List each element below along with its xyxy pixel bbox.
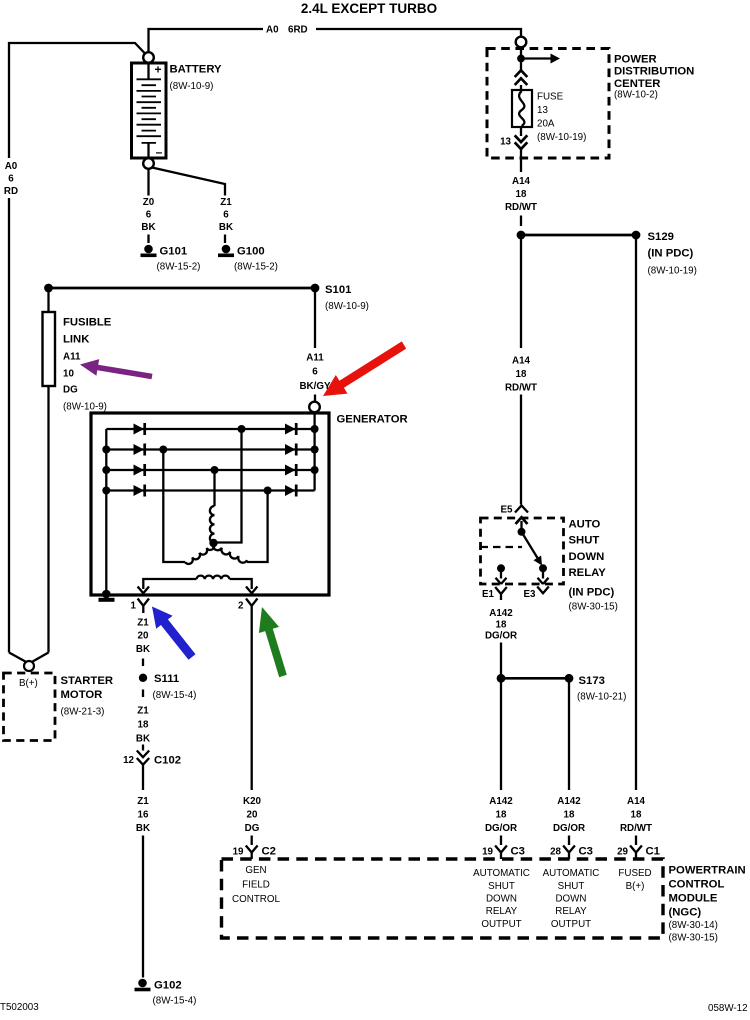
battery BATTERY box [132, 63, 167, 158]
auto shut down relay box dashed [481, 518, 564, 584]
svg-text:OUTPUT: OUTPUT [481, 919, 521, 930]
svg-text:18: 18 [496, 620, 507, 631]
svg-text:RD/WT: RD/WT [620, 823, 652, 834]
svg-text:A11: A11 [306, 353, 324, 364]
svg-text:12: 12 [123, 755, 134, 766]
wire dash above G100 [224, 235, 226, 244]
wire S101 to fusible link [47, 288, 49, 312]
ground G101 [144, 245, 153, 254]
wire above C2 [251, 836, 253, 846]
svg-text:A0: A0 [266, 25, 279, 36]
generator rectifier row 1 wire [106, 428, 314, 430]
splice S173 bus wire [501, 677, 569, 680]
svg-text:G102: G102 [154, 980, 182, 992]
svg-text:19: 19 [482, 847, 493, 858]
svg-text:BK: BK [141, 222, 155, 233]
generator right bus wire [313, 413, 315, 491]
svg-text:POWER: POWER [614, 54, 657, 66]
annotation green arrow [259, 607, 287, 677]
wire Z1 from battery [152, 168, 225, 196]
svg-text:A142: A142 [557, 796, 581, 807]
svg-text:6: 6 [312, 367, 318, 378]
stator winding coil left phase [185, 543, 214, 564]
wire above C3 pin19 [500, 836, 502, 846]
node dots on left bus [102, 446, 110, 454]
svg-text:A142: A142 [489, 796, 513, 807]
svg-text:(NGC): (NGC) [669, 907, 702, 919]
relay switch arm [522, 532, 538, 558]
svg-text:MODULE: MODULE [669, 893, 718, 905]
svg-text:S173: S173 [579, 675, 605, 687]
connector C1 pin 29 [630, 846, 642, 860]
svg-text:C102: C102 [154, 755, 181, 767]
annotation red arrow [323, 341, 406, 396]
svg-text:POWERTRAIN: POWERTRAIN [669, 865, 746, 877]
svg-text:(IN PDC): (IN PDC) [569, 587, 615, 599]
svg-text:B(+): B(+) [626, 881, 645, 892]
svg-text:DOWN: DOWN [486, 894, 517, 905]
wire above C3 pin28 [568, 836, 570, 846]
node S101 [311, 284, 320, 293]
svg-text:DOWN: DOWN [569, 551, 605, 563]
svg-text:AUTOMATIC: AUTOMATIC [543, 868, 600, 879]
svg-text:6: 6 [223, 210, 229, 221]
svg-text:2.4L EXCEPT TURBO: 2.4L EXCEPT TURBO [301, 1, 437, 16]
svg-text:6: 6 [8, 174, 14, 185]
generator case ground node [102, 590, 111, 599]
diode D5 right row1 [285, 424, 296, 435]
relay internal dashed divider [481, 546, 523, 548]
field brush arrow pin1 [138, 587, 149, 594]
generator left bus wire [105, 429, 107, 594]
svg-text:DG: DG [245, 823, 260, 834]
svg-text:BK/GY: BK/GY [299, 381, 330, 392]
fuse entry chevrons up [515, 70, 528, 85]
starter motor box dashed [4, 673, 56, 741]
svg-text:RELAY: RELAY [569, 567, 607, 579]
svg-text:RELAY: RELAY [486, 906, 518, 917]
svg-text:FIELD: FIELD [242, 880, 270, 891]
stator winding coil top phase [210, 506, 215, 543]
svg-text:18: 18 [631, 810, 642, 821]
svg-text:058W-12: 058W-12 [708, 1003, 748, 1014]
svg-text:STARTER: STARTER [61, 675, 114, 687]
svg-text:(8W-10-9): (8W-10-9) [325, 301, 369, 312]
svg-text:FUSIBLE: FUSIBLE [63, 317, 112, 329]
svg-text:29: 29 [617, 847, 628, 858]
svg-text:(8W-10-19): (8W-10-19) [537, 132, 586, 143]
svg-text:DG: DG [63, 385, 78, 396]
node S129 dot left [517, 231, 526, 240]
relay common node dot [518, 528, 526, 536]
wire dash above G101 [147, 235, 149, 244]
svg-text:FUSE: FUSE [537, 92, 564, 103]
ground G100 [222, 245, 231, 254]
wire fusible link to starter motor [47, 386, 49, 653]
relay E3 arrow down [538, 570, 549, 584]
ground G102 [138, 979, 147, 988]
svg-text:16: 16 [138, 810, 149, 821]
relay E1 arrow down [496, 570, 507, 584]
power distribution center box dashed [487, 49, 609, 159]
wire Z0 from battery [147, 169, 149, 196]
annotation blue arrow [152, 607, 196, 660]
svg-text:LINK: LINK [63, 334, 90, 346]
stator tap wire row3 to top phase [213, 470, 215, 506]
stator neutral node dot [209, 539, 217, 547]
svg-text:G100: G100 [237, 246, 265, 258]
battery internal plates [147, 65, 149, 159]
wire S129 down to E5 [520, 235, 522, 505]
svg-text:C2: C2 [262, 846, 276, 858]
diode D4 left row4 [134, 485, 145, 496]
svg-text:(8W-21-3): (8W-21-3) [61, 707, 105, 718]
svg-text:G101: G101 [160, 246, 188, 258]
svg-text:S111: S111 [154, 673, 179, 685]
svg-text:SHUT: SHUT [488, 881, 515, 892]
svg-text:(8W-10-19): (8W-10-19) [648, 266, 697, 277]
connector C102 chevrons [137, 751, 149, 765]
wire to box edge [520, 149, 522, 172]
fuse exit chevrons down [515, 135, 528, 149]
svg-text:CONTROL: CONTROL [669, 879, 725, 891]
svg-text:(8W-30-15): (8W-30-15) [669, 933, 718, 944]
fusible link body [43, 312, 56, 386]
diode D8 right row4 [285, 485, 296, 496]
svg-text:Z1: Z1 [220, 197, 232, 208]
svg-text:GENERATOR: GENERATOR [337, 414, 408, 426]
svg-text:RD/WT: RD/WT [505, 202, 537, 213]
diode D1 left row1 [134, 424, 145, 435]
svg-text:18: 18 [516, 189, 527, 200]
svg-text:2: 2 [238, 601, 244, 612]
powertrain control module box dashed [222, 859, 664, 938]
diode D3 left row3 [134, 465, 145, 476]
svg-text:RELAY: RELAY [555, 906, 587, 917]
fuse 13 body [512, 90, 532, 127]
svg-text:BK: BK [136, 644, 150, 655]
ground bar below generator [99, 598, 115, 602]
field brush arrow pin2 [246, 587, 257, 594]
svg-text:FUSED: FUSED [618, 868, 651, 879]
svg-text:Z0: Z0 [143, 197, 155, 208]
svg-text:BK: BK [136, 734, 150, 745]
wire circle to bus node [520, 48, 522, 71]
svg-text:DOWN: DOWN [555, 894, 586, 905]
svg-text:DG/OR: DG/OR [485, 823, 517, 834]
stator tap wire row1 to neutral [217, 429, 242, 543]
wire A0 branch to left side [9, 43, 145, 653]
svg-text:18: 18 [516, 369, 527, 380]
generator rectifier row 2 wire [106, 448, 314, 450]
node S173 [565, 674, 574, 683]
svg-text:C3: C3 [511, 846, 525, 858]
svg-text:20A: 20A [537, 119, 555, 130]
svg-text:Z1: Z1 [137, 706, 149, 717]
pin 2 connector Y [246, 599, 257, 614]
svg-text:MOTOR: MOTOR [61, 689, 103, 701]
node dots on right bus [311, 425, 319, 433]
svg-text:(8W-15-2): (8W-15-2) [157, 262, 201, 273]
connector C3 pin 28 [563, 846, 575, 860]
wire E1 to S173 [500, 643, 502, 679]
node dot in PDC [517, 55, 525, 63]
relay E5 arrow into common [516, 517, 528, 524]
svg-text:19: 19 [233, 847, 244, 858]
PDC feed terminal circle [516, 37, 527, 48]
svg-text:6RD: 6RD [288, 25, 308, 36]
wire below C102 [142, 765, 144, 790]
svg-text:18: 18 [564, 810, 575, 821]
stator tap wire row4 to right phase [247, 491, 268, 563]
svg-text:18: 18 [138, 720, 149, 731]
svg-text:BK: BK [219, 222, 233, 233]
pin E5 entry chevron [515, 506, 528, 513]
svg-text:A14: A14 [512, 356, 531, 367]
svg-text:(8W-10-21): (8W-10-21) [577, 692, 626, 703]
svg-text:OUTPUT: OUTPUT [551, 919, 591, 930]
svg-text:E5: E5 [501, 505, 514, 516]
annotation purple arrow [80, 359, 153, 379]
node S101 dot left [44, 284, 53, 293]
starter terminal circle [24, 661, 34, 671]
node S111 [139, 674, 147, 682]
svg-text:GEN: GEN [245, 865, 266, 876]
svg-text:T502003: T502003 [0, 1002, 39, 1013]
svg-text:10: 10 [63, 369, 74, 380]
node S173 dot left [497, 674, 506, 683]
wire converge to starter motor [9, 653, 49, 662]
svg-text:SHUT: SHUT [558, 881, 585, 892]
connector C2 pin 19 [246, 846, 258, 860]
svg-text:(8W-15-2): (8W-15-2) [234, 262, 278, 273]
wire S129 right down to C1 pin29 [635, 235, 637, 790]
svg-text:13: 13 [500, 137, 511, 148]
svg-text:C1: C1 [646, 846, 660, 858]
wire dash above S111 [142, 659, 144, 667]
svg-text:S101: S101 [325, 284, 351, 296]
svg-text:13: 13 [537, 105, 548, 116]
svg-text:CONTROL: CONTROL [232, 894, 280, 905]
connector C3 pin 19 [495, 846, 507, 860]
wire S101 to generator A11 [314, 288, 316, 402]
generator box [91, 413, 329, 595]
svg-text:20: 20 [247, 810, 258, 821]
svg-text:(8W-10-9): (8W-10-9) [63, 402, 107, 413]
svg-text:RD: RD [4, 186, 18, 197]
svg-text:(IN PDC): (IN PDC) [648, 248, 694, 260]
diode D6 right row2 [285, 444, 296, 455]
wire above C102 [142, 745, 144, 751]
svg-text:–: – [156, 145, 163, 159]
battery bottom terminal circle [143, 158, 154, 169]
svg-text:BK: BK [136, 823, 150, 834]
svg-text:SHUT: SHUT [569, 535, 600, 547]
diode D2 left row2 [134, 444, 145, 455]
svg-text:AUTOMATIC: AUTOMATIC [473, 868, 530, 879]
generator rectifier row 4 wire [106, 489, 314, 491]
svg-text:6: 6 [146, 210, 152, 221]
pin 1 connector Y [138, 599, 149, 614]
svg-text:DG/OR: DG/OR [553, 823, 585, 834]
svg-text:DG/OR: DG/OR [485, 631, 517, 642]
wire above C1 pin29 [635, 836, 637, 846]
stator winding coil right phase [213, 544, 247, 563]
relay E1 node dot [497, 564, 505, 572]
node S129 [632, 231, 641, 240]
svg-text:A14: A14 [627, 796, 646, 807]
wire fuse to exit [520, 127, 522, 136]
svg-text:1: 1 [131, 601, 137, 612]
svg-text:28: 28 [550, 847, 561, 858]
splice S129 bus wire [521, 234, 636, 237]
wire S173 left down to C3 pin19 [500, 678, 502, 790]
field winding wire and coil [143, 579, 196, 589]
wire to fuse [520, 85, 522, 90]
wire A0 top: label to PDC [316, 29, 521, 37]
svg-text:C3: C3 [579, 846, 593, 858]
svg-text:Z1: Z1 [137, 796, 149, 807]
svg-text:DISTRIBUTION: DISTRIBUTION [614, 66, 694, 78]
svg-text:AUTO: AUTO [569, 519, 601, 531]
generator rectifier row 3 wire [106, 469, 314, 471]
fuse element wave [519, 91, 524, 126]
bus arrow to right [521, 57, 551, 59]
wire C102 to G102 [142, 836, 144, 978]
svg-text:E3: E3 [524, 589, 537, 600]
svg-text:A14: A14 [512, 176, 531, 187]
wire dash below S111 [142, 690, 144, 698]
svg-text:A0: A0 [5, 161, 18, 172]
wire S173 right down to C3 pin28 [568, 678, 570, 790]
svg-text:CENTER: CENTER [614, 78, 660, 90]
svg-text:(8W-15-4): (8W-15-4) [153, 690, 197, 701]
svg-text:(8W-30-14): (8W-30-14) [669, 920, 718, 931]
pin E1 connector Y [495, 587, 507, 600]
svg-text:(8W-10-9): (8W-10-9) [170, 81, 214, 92]
svg-text:S129: S129 [648, 231, 674, 243]
pin E3 connector chevron [537, 587, 549, 594]
svg-text:A142: A142 [489, 608, 513, 619]
svg-text:18: 18 [496, 810, 507, 821]
stator tap wire row2 to left phase [163, 450, 185, 563]
svg-text:(8W-10-2): (8W-10-2) [614, 90, 658, 101]
svg-text:+: + [154, 63, 161, 77]
diode D7 right row3 [285, 465, 296, 476]
wire pin2 down to C2 [251, 613, 253, 790]
svg-text:(8W-15-4): (8W-15-4) [153, 996, 197, 1007]
svg-text:K20: K20 [243, 796, 262, 807]
svg-text:B(+): B(+) [19, 678, 38, 689]
battery top terminal circle [143, 52, 154, 63]
svg-text:RD/WT: RD/WT [505, 383, 537, 394]
relay E3 node dot [539, 564, 547, 572]
svg-text:(8W-30-15): (8W-30-15) [569, 602, 618, 613]
svg-text:Z1: Z1 [137, 618, 149, 629]
svg-text:E1: E1 [482, 589, 495, 600]
wire dash above S129 [520, 216, 522, 227]
wire A0 top: battery to label [149, 29, 264, 52]
svg-text:20: 20 [138, 631, 149, 642]
splice S101 bus wire [49, 287, 316, 290]
svg-text:A11: A11 [63, 352, 81, 363]
svg-text:BATTERY: BATTERY [170, 64, 223, 76]
generator output terminal circle [309, 402, 320, 413]
